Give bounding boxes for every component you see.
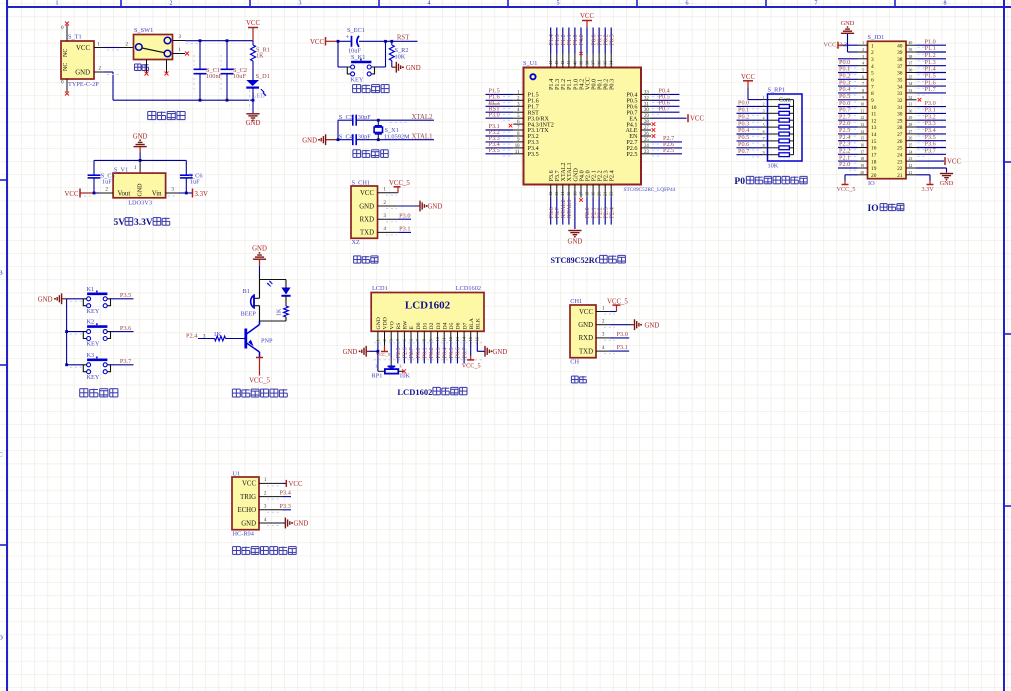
svg-text:XTAL1: XTAL1 bbox=[412, 133, 433, 140]
svg-text:2: 2 bbox=[763, 103, 765, 107]
svg-text:37: 37 bbox=[897, 64, 903, 70]
svg-text:5: 5 bbox=[871, 71, 874, 77]
svg-text:TRIG: TRIG bbox=[240, 494, 256, 501]
svg-text:VCC_5: VCC_5 bbox=[376, 352, 391, 357]
svg-text:S_T1: S_T1 bbox=[68, 34, 82, 41]
svg-text:38: 38 bbox=[897, 57, 903, 63]
svg-text:11: 11 bbox=[871, 112, 876, 118]
svg-text:XTAL2: XTAL2 bbox=[412, 114, 434, 121]
svg-text:GND: GND bbox=[252, 246, 267, 253]
svg-text:BLK: BLK bbox=[476, 317, 482, 329]
svg-text:D1: D1 bbox=[423, 322, 429, 329]
svg-text:31: 31 bbox=[897, 105, 903, 111]
svg-text:8: 8 bbox=[862, 89, 864, 93]
svg-text:GND: GND bbox=[38, 297, 53, 304]
svg-text:HC-R04: HC-R04 bbox=[233, 531, 255, 538]
svg-text:S_CH1: S_CH1 bbox=[352, 180, 371, 187]
svg-text:3: 3 bbox=[763, 110, 765, 114]
svg-text:34: 34 bbox=[897, 84, 903, 90]
svg-text:P0.3: P0.3 bbox=[608, 34, 615, 45]
svg-text:10: 10 bbox=[871, 105, 877, 111]
svg-text:NC: NC bbox=[63, 63, 69, 71]
svg-text:26: 26 bbox=[644, 132, 649, 137]
svg-text:P2.5: P2.5 bbox=[663, 147, 674, 154]
svg-text:26: 26 bbox=[897, 139, 903, 145]
svg-text:GND: GND bbox=[241, 520, 256, 527]
svg-text:10uF: 10uF bbox=[233, 73, 246, 80]
svg-text:35: 35 bbox=[897, 78, 903, 84]
svg-text:P2.5: P2.5 bbox=[396, 347, 402, 358]
svg-text:2: 2 bbox=[382, 339, 387, 341]
svg-text:P3.5: P3.5 bbox=[528, 151, 539, 158]
svg-text:6: 6 bbox=[862, 75, 864, 79]
svg-text:D6: D6 bbox=[456, 322, 462, 329]
svg-text:P4.2: P4.2 bbox=[578, 34, 585, 45]
svg-text:LCD1602: LCD1602 bbox=[397, 387, 432, 397]
svg-text:12: 12 bbox=[448, 337, 453, 341]
svg-text:1uF: 1uF bbox=[190, 179, 200, 186]
svg-text:S_V1: S_V1 bbox=[114, 167, 128, 174]
svg-text:27: 27 bbox=[897, 132, 903, 138]
svg-text:4: 4 bbox=[862, 62, 864, 66]
svg-text:GND: GND bbox=[343, 349, 358, 356]
svg-text:27: 27 bbox=[909, 130, 913, 134]
svg-text:28: 28 bbox=[644, 120, 649, 125]
svg-text:P0.1: P0.1 bbox=[423, 347, 429, 358]
svg-text:30: 30 bbox=[644, 108, 649, 113]
svg-text:GND: GND bbox=[645, 322, 660, 329]
svg-text:8: 8 bbox=[763, 144, 765, 148]
svg-text:33: 33 bbox=[897, 91, 903, 97]
svg-text:VCC_5: VCC_5 bbox=[462, 362, 481, 369]
svg-text:Com: Com bbox=[779, 98, 791, 104]
svg-text:7: 7 bbox=[815, 1, 818, 7]
svg-text:RXD: RXD bbox=[360, 217, 374, 224]
svg-text:37: 37 bbox=[909, 62, 913, 66]
svg-text:VCC_3.3: VCC_3.3 bbox=[824, 41, 848, 48]
svg-text:Vin: Vin bbox=[152, 191, 162, 198]
svg-text:23: 23 bbox=[909, 157, 913, 161]
svg-text:LCD1602: LCD1602 bbox=[456, 285, 481, 292]
svg-text:20: 20 bbox=[860, 171, 864, 175]
svg-text:S_C3: S_C3 bbox=[339, 114, 353, 121]
svg-text:D2: D2 bbox=[429, 322, 435, 329]
svg-text:5: 5 bbox=[763, 123, 765, 127]
svg-text:1: 1 bbox=[871, 43, 874, 49]
svg-text:GND: GND bbox=[246, 120, 261, 127]
svg-text:1: 1 bbox=[763, 96, 765, 100]
svg-text:P0.2: P0.2 bbox=[429, 347, 435, 358]
svg-text:C: C bbox=[0, 452, 3, 459]
svg-text:17: 17 bbox=[871, 153, 877, 159]
svg-text:9: 9 bbox=[862, 96, 864, 100]
svg-text:B1: B1 bbox=[243, 288, 250, 295]
svg-text:VCC: VCC bbox=[690, 116, 704, 123]
svg-text:33: 33 bbox=[644, 90, 649, 95]
svg-text:D5: D5 bbox=[449, 322, 455, 329]
svg-text:10: 10 bbox=[515, 144, 520, 149]
svg-text:GND: GND bbox=[940, 180, 954, 187]
svg-text:RXD: RXD bbox=[579, 335, 593, 342]
svg-text:P3.7: P3.7 bbox=[120, 358, 131, 365]
svg-text:7: 7 bbox=[763, 137, 765, 141]
svg-text:4: 4 bbox=[428, 1, 431, 7]
svg-text:17: 17 bbox=[860, 150, 864, 154]
svg-text:26: 26 bbox=[909, 137, 913, 141]
svg-text:2: 2 bbox=[871, 50, 874, 56]
svg-text:1: 1 bbox=[375, 365, 377, 369]
svg-text:S_D1: S_D1 bbox=[256, 73, 270, 80]
svg-text:S_RP1: S_RP1 bbox=[768, 87, 786, 94]
svg-text:PNP: PNP bbox=[261, 338, 273, 345]
svg-text:1K: 1K bbox=[256, 53, 264, 60]
svg-text:P0.3: P0.3 bbox=[436, 347, 442, 358]
svg-text:24: 24 bbox=[909, 150, 913, 154]
svg-text:21: 21 bbox=[603, 192, 608, 196]
svg-text:39: 39 bbox=[897, 50, 903, 56]
svg-text:100nF: 100nF bbox=[206, 73, 223, 80]
svg-text:39: 39 bbox=[909, 48, 913, 52]
svg-text:P3.6: P3.6 bbox=[120, 325, 131, 332]
svg-text:28: 28 bbox=[909, 123, 913, 127]
svg-text:GND: GND bbox=[406, 65, 421, 72]
svg-text:38: 38 bbox=[909, 55, 913, 59]
svg-text:40: 40 bbox=[897, 43, 903, 49]
svg-text:1K: 1K bbox=[277, 308, 283, 316]
svg-text:25: 25 bbox=[909, 144, 913, 148]
svg-text:P2.4: P2.4 bbox=[609, 170, 616, 181]
svg-text:K2: K2 bbox=[87, 319, 95, 326]
svg-text:P3.5: P3.5 bbox=[120, 292, 131, 299]
svg-text:31: 31 bbox=[644, 102, 649, 107]
svg-text:10K: 10K bbox=[395, 54, 406, 61]
svg-text:P2.5: P2.5 bbox=[626, 151, 637, 158]
svg-text:D7: D7 bbox=[462, 322, 468, 329]
svg-text:18: 18 bbox=[860, 157, 864, 161]
svg-text:XZ: XZ bbox=[352, 239, 361, 246]
svg-text:15: 15 bbox=[871, 139, 877, 145]
svg-text:S_SW1: S_SW1 bbox=[134, 27, 153, 34]
svg-text:P0.7: P0.7 bbox=[462, 347, 468, 358]
svg-text:21: 21 bbox=[897, 173, 903, 179]
svg-text:3: 3 bbox=[400, 365, 402, 369]
svg-text:30pF: 30pF bbox=[358, 114, 371, 121]
svg-text:GND: GND bbox=[376, 317, 382, 329]
svg-text:D4: D4 bbox=[442, 322, 448, 329]
svg-text:33: 33 bbox=[909, 89, 913, 93]
svg-text:11: 11 bbox=[515, 150, 520, 155]
svg-text:7: 7 bbox=[871, 84, 874, 90]
svg-text:GND: GND bbox=[841, 20, 855, 27]
svg-text:35: 35 bbox=[909, 75, 913, 79]
svg-text:5V: 5V bbox=[114, 218, 126, 228]
svg-text:S_U1: S_U1 bbox=[523, 60, 537, 67]
svg-text:IO: IO bbox=[868, 180, 875, 187]
svg-text:VCC: VCC bbox=[310, 39, 324, 46]
svg-text:2: 2 bbox=[862, 48, 864, 52]
svg-text:19: 19 bbox=[871, 166, 877, 172]
svg-text:TXD: TXD bbox=[360, 230, 374, 237]
svg-text:24: 24 bbox=[644, 144, 649, 149]
svg-text:21: 21 bbox=[909, 171, 913, 175]
svg-text:30: 30 bbox=[897, 112, 903, 118]
svg-text:KEY: KEY bbox=[87, 341, 100, 348]
svg-text:P3.5: P3.5 bbox=[489, 147, 500, 154]
svg-text:IO: IO bbox=[868, 204, 879, 214]
svg-text:2: 2 bbox=[170, 1, 173, 7]
svg-text:VCC: VCC bbox=[579, 309, 593, 316]
svg-text:13: 13 bbox=[871, 125, 877, 131]
svg-text:P0.7: P0.7 bbox=[659, 105, 670, 112]
svg-text:RST: RST bbox=[397, 35, 410, 42]
svg-text:P2.4: P2.4 bbox=[186, 333, 198, 340]
svg-text:29: 29 bbox=[909, 116, 913, 120]
svg-text:6: 6 bbox=[686, 1, 689, 7]
svg-text:5: 5 bbox=[862, 69, 864, 73]
svg-text:9: 9 bbox=[763, 151, 765, 155]
svg-text:VCC: VCC bbox=[289, 481, 303, 488]
svg-text:LDO3V3: LDO3V3 bbox=[128, 200, 152, 207]
svg-text:GND: GND bbox=[578, 322, 593, 329]
svg-text:5: 5 bbox=[557, 1, 560, 7]
svg-text:K3: K3 bbox=[87, 352, 95, 359]
svg-text:25: 25 bbox=[644, 138, 649, 143]
svg-text:P1.7: P1.7 bbox=[925, 86, 936, 93]
svg-text:GND: GND bbox=[138, 183, 144, 197]
svg-text:36: 36 bbox=[897, 71, 903, 77]
svg-text:32: 32 bbox=[644, 96, 649, 101]
svg-text:GND: GND bbox=[568, 239, 583, 246]
svg-text:P3.0: P3.0 bbox=[617, 331, 628, 338]
svg-text:1: 1 bbox=[375, 339, 380, 341]
svg-text:24: 24 bbox=[897, 153, 903, 159]
svg-text:30pF: 30pF bbox=[358, 133, 371, 140]
svg-text:3.3V: 3.3V bbox=[134, 218, 153, 228]
svg-text:3: 3 bbox=[862, 55, 864, 59]
svg-text:P3.0: P3.0 bbox=[399, 212, 410, 219]
svg-text:D0: D0 bbox=[416, 322, 422, 329]
svg-text:12: 12 bbox=[548, 192, 553, 196]
svg-text:RW: RW bbox=[403, 320, 409, 329]
svg-text:E: E bbox=[409, 326, 415, 330]
svg-text:VCC_5: VCC_5 bbox=[389, 180, 410, 187]
svg-text:8: 8 bbox=[944, 1, 947, 7]
svg-text:VCC: VCC bbox=[360, 190, 374, 197]
svg-text:23: 23 bbox=[897, 159, 903, 165]
svg-text:11: 11 bbox=[860, 109, 864, 113]
svg-text:KEY: KEY bbox=[87, 374, 100, 381]
svg-text:K1: K1 bbox=[87, 286, 95, 293]
svg-text:10K: 10K bbox=[768, 163, 779, 170]
svg-text:S_K1: S_K1 bbox=[351, 54, 365, 61]
svg-text:VCC: VCC bbox=[242, 481, 256, 488]
svg-text:VCC: VCC bbox=[947, 159, 961, 166]
svg-text:29: 29 bbox=[897, 118, 903, 124]
svg-text:CH: CH bbox=[570, 359, 579, 366]
svg-text:XTAL1: XTAL1 bbox=[566, 199, 573, 218]
svg-text:16: 16 bbox=[871, 146, 877, 152]
svg-text:TXD: TXD bbox=[579, 348, 593, 355]
svg-text:18: 18 bbox=[871, 159, 877, 165]
svg-text:41: 41 bbox=[566, 61, 571, 65]
svg-text:36: 36 bbox=[909, 69, 913, 73]
svg-text:VCC_5: VCC_5 bbox=[249, 378, 270, 385]
svg-text:P3.3: P3.3 bbox=[280, 503, 291, 510]
svg-text:P0.5: P0.5 bbox=[449, 347, 455, 358]
svg-text:25: 25 bbox=[897, 146, 903, 152]
svg-text:P3.4: P3.4 bbox=[280, 490, 292, 497]
svg-text:NC: NC bbox=[63, 49, 69, 57]
svg-text:11.0592M: 11.0592M bbox=[384, 133, 410, 140]
svg-text:P0.0: P0.0 bbox=[416, 347, 422, 358]
svg-text:40: 40 bbox=[909, 41, 913, 45]
svg-text:6: 6 bbox=[871, 78, 874, 84]
svg-text:1uF: 1uF bbox=[102, 179, 112, 186]
svg-text:P0.4: P0.4 bbox=[442, 347, 448, 358]
svg-text:29: 29 bbox=[644, 114, 649, 119]
svg-text:U1: U1 bbox=[233, 470, 241, 477]
svg-text:LCD1: LCD1 bbox=[372, 285, 388, 292]
svg-text:GND: GND bbox=[302, 138, 317, 145]
svg-text:42: 42 bbox=[560, 61, 565, 65]
svg-text:30: 30 bbox=[909, 109, 913, 113]
svg-text:S_EC1: S_EC1 bbox=[347, 27, 365, 34]
svg-text:9: 9 bbox=[871, 98, 874, 104]
svg-text:S_C4: S_C4 bbox=[339, 133, 354, 140]
svg-text:20: 20 bbox=[871, 173, 877, 179]
svg-text:VCC_5: VCC_5 bbox=[837, 186, 856, 193]
svg-text:P0.7: P0.7 bbox=[738, 148, 749, 155]
svg-text:ECHO: ECHO bbox=[237, 507, 256, 514]
svg-text:VCC: VCC bbox=[741, 74, 755, 81]
svg-text:P0.3: P0.3 bbox=[609, 79, 616, 90]
svg-text:32: 32 bbox=[897, 98, 903, 104]
svg-text:16: 16 bbox=[860, 144, 864, 148]
svg-text:VCC: VCC bbox=[65, 191, 79, 198]
svg-text:31: 31 bbox=[909, 103, 913, 107]
svg-text:15: 15 bbox=[860, 137, 864, 141]
svg-text:GND: GND bbox=[359, 203, 374, 210]
svg-text:19: 19 bbox=[860, 164, 864, 168]
svg-text:P0: P0 bbox=[734, 177, 745, 187]
svg-text:22: 22 bbox=[609, 192, 614, 196]
svg-text:VO: VO bbox=[389, 321, 395, 329]
svg-text:12: 12 bbox=[871, 118, 877, 124]
svg-text:STC89C52RC_LQFP44: STC89C52RC_LQFP44 bbox=[624, 187, 676, 193]
svg-text:P2.0: P2.0 bbox=[839, 161, 850, 168]
svg-text:22: 22 bbox=[909, 164, 913, 168]
svg-text:VDD: VDD bbox=[383, 317, 389, 329]
svg-text:10K: 10K bbox=[399, 373, 410, 380]
svg-text:P2.7: P2.7 bbox=[409, 347, 415, 358]
svg-text:1K: 1K bbox=[214, 331, 222, 338]
svg-text:+: + bbox=[346, 34, 350, 41]
svg-text:GND: GND bbox=[75, 70, 90, 77]
svg-text:VCC_5: VCC_5 bbox=[607, 298, 628, 305]
svg-text:4: 4 bbox=[871, 64, 874, 70]
svg-text:11: 11 bbox=[442, 337, 447, 341]
svg-text:13: 13 bbox=[860, 123, 864, 127]
svg-text:D: D bbox=[0, 635, 3, 642]
svg-text:VCC: VCC bbox=[246, 20, 260, 27]
svg-text:P0.6: P0.6 bbox=[456, 347, 462, 358]
svg-text:12: 12 bbox=[860, 116, 864, 120]
svg-text:LCD1602: LCD1602 bbox=[405, 300, 451, 312]
svg-text:6: 6 bbox=[763, 130, 765, 134]
svg-text:KEY: KEY bbox=[87, 308, 100, 315]
svg-text:GND: GND bbox=[493, 349, 508, 356]
svg-text:CH1: CH1 bbox=[570, 298, 582, 305]
svg-text:RS: RS bbox=[396, 323, 402, 330]
svg-text:23: 23 bbox=[644, 150, 649, 155]
svg-text:RP1: RP1 bbox=[372, 373, 383, 380]
svg-text:P3.7: P3.7 bbox=[925, 148, 936, 155]
svg-text:1: 1 bbox=[56, 1, 59, 7]
svg-text:3: 3 bbox=[299, 1, 302, 7]
svg-text:Vout: Vout bbox=[118, 191, 131, 198]
svg-text:P2.6: P2.6 bbox=[403, 347, 409, 358]
svg-text:34: 34 bbox=[909, 82, 913, 86]
svg-text:8: 8 bbox=[871, 91, 874, 97]
svg-text:P2.4: P2.4 bbox=[608, 207, 615, 218]
svg-text:BEEP: BEEP bbox=[241, 311, 257, 318]
svg-text:GND: GND bbox=[428, 204, 443, 211]
svg-text:3: 3 bbox=[871, 57, 874, 63]
svg-text:VCC: VCC bbox=[76, 45, 90, 52]
svg-text:STC89C52RC: STC89C52RC bbox=[551, 256, 601, 265]
svg-text:22: 22 bbox=[897, 166, 903, 172]
svg-text:32: 32 bbox=[909, 96, 913, 100]
svg-text:3.3V: 3.3V bbox=[195, 191, 208, 198]
svg-text:GND: GND bbox=[294, 521, 309, 528]
svg-text:10: 10 bbox=[860, 103, 864, 107]
svg-text:14: 14 bbox=[860, 130, 864, 134]
svg-text:S_JD1: S_JD1 bbox=[868, 34, 885, 41]
svg-text:P3.1: P3.1 bbox=[399, 226, 410, 233]
svg-text:3.3V: 3.3V bbox=[922, 186, 935, 193]
svg-text:KEY: KEY bbox=[351, 77, 364, 84]
svg-text:28: 28 bbox=[897, 125, 903, 131]
svg-text:27: 27 bbox=[644, 126, 649, 131]
svg-text:P3.1: P3.1 bbox=[617, 344, 628, 351]
svg-text:14: 14 bbox=[871, 132, 877, 138]
svg-text:D3: D3 bbox=[436, 322, 442, 329]
svg-text:TYPE-C-2P: TYPE-C-2P bbox=[68, 81, 99, 88]
svg-text:BLA: BLA bbox=[469, 317, 475, 329]
svg-text:7: 7 bbox=[862, 82, 864, 86]
svg-text:P3.0: P3.0 bbox=[489, 111, 500, 118]
svg-text:4: 4 bbox=[763, 116, 765, 120]
svg-text:VCC: VCC bbox=[580, 13, 594, 20]
svg-text:1: 1 bbox=[862, 41, 864, 45]
